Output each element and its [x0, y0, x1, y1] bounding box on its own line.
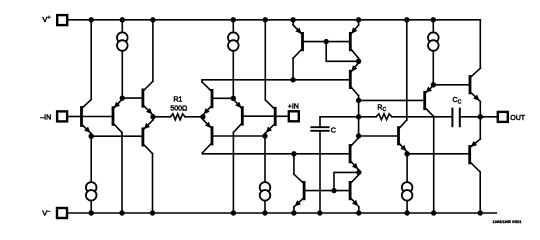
- svg-text:–IN: –IN: [40, 115, 51, 122]
- svg-text:V–: V–: [42, 209, 51, 218]
- svg-text:CC: CC: [453, 97, 462, 106]
- svg-text:RC: RC: [377, 105, 386, 114]
- svg-text:500Ω: 500Ω: [170, 106, 187, 113]
- svg-text:1364/1365 SS01: 1364/1365 SS01: [493, 219, 522, 224]
- svg-text:V+: V+: [42, 15, 50, 24]
- svg-text:R1: R1: [173, 96, 182, 103]
- svg-text:OUT: OUT: [510, 115, 526, 122]
- svg-text:C: C: [331, 125, 336, 134]
- svg-text:+IN: +IN: [288, 104, 299, 111]
